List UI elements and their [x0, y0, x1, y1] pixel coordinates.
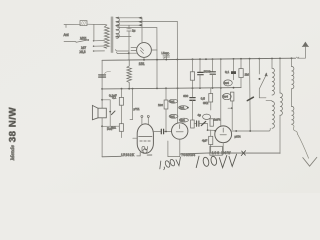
resistor R6	[191, 120, 195, 128]
wire column x192.5	[192, 59, 194, 72]
tuning coil L2 secondary	[116, 17, 119, 38]
node x110 cluster	[109, 111, 111, 113]
wire C top	[291, 58, 293, 66]
wire C9 right	[200, 124, 208, 131]
resistor R3 zigzag	[127, 60, 132, 88]
svg-text:1wt: 1wt	[158, 103, 163, 107]
wire column x157 mid	[156, 60, 158, 89]
svg-text:λ0,3: λ0,3	[80, 50, 86, 54]
wire R2 stub	[121, 131, 123, 137]
capacitor C14	[231, 71, 236, 74]
svg-text:1RIS2K: 1RIS2K	[121, 153, 135, 157]
svg-text:0w1: 0w1	[180, 106, 185, 110]
wire antenna lower lead	[64, 41, 76, 43]
heater box V4	[210, 146, 223, 155]
wire coil pin hook1	[115, 50, 128, 51]
bus main HT line	[102, 58, 296, 60]
svg-text:2wFt: 2wFt	[214, 117, 221, 121]
handwriting 100V right	[196, 154, 236, 167]
capacitor C1 grid	[127, 25, 131, 60]
capacitor C4 diagonal	[111, 111, 115, 115]
resistor R4	[164, 100, 168, 109]
node V4 left rim	[214, 130, 216, 132]
node 207.6	[207, 129, 209, 131]
transformer primary winding A1	[272, 68, 274, 95]
wire speaker bottom	[101, 118, 103, 157]
node row dots	[121, 87, 235, 90]
svg-text:0w1: 0w1	[170, 99, 175, 103]
switch S2 arm	[259, 74, 267, 89]
wire row y88.7	[102, 88, 241, 89]
wire to V4	[208, 129, 215, 131]
trimmer arrow C3	[105, 71, 111, 73]
svg-text:μ00t: μ00t	[235, 135, 241, 139]
wire tap1 to coil	[94, 40, 105, 42]
transformer winding C2	[292, 106, 294, 124]
svg-text:106 N3W: 106 N3W	[212, 151, 231, 155]
capacitor C13 diagonal	[201, 121, 205, 125]
wire line L4	[118, 27, 157, 29]
node bottom line	[223, 152, 225, 154]
wire column x219.5 feeds V4	[220, 59, 222, 126]
wire V1 pins from coil	[129, 48, 137, 54]
wire V4 right anode row	[232, 128, 271, 131]
wire C8 down	[192, 100, 194, 120]
tube V3 circle	[172, 123, 188, 139]
svg-text:151: 151	[139, 62, 145, 66]
oval capacitor C12	[203, 114, 211, 119]
electrode V3	[176, 125, 183, 132]
wire coil pin hook2	[116, 52, 128, 53]
wire V1 bottom	[143, 57, 145, 60]
wire column x162.5	[165, 88, 167, 100]
handwriting X	[241, 151, 245, 156]
wire column x233.5	[233, 59, 235, 71]
node left column y99.8	[101, 99, 103, 101]
electrode V2 grid dashes	[140, 140, 151, 142]
resistor R8	[231, 92, 234, 101]
node tap1	[93, 40, 95, 42]
wire V2 top pin1	[141, 117, 143, 124]
svg-text:Löspr: Löspr	[162, 51, 169, 55]
arrow mains up	[302, 42, 308, 47]
wire R7 down	[210, 102, 212, 110]
wire heater tap row	[266, 99, 272, 101]
handwriting 100V left	[159, 157, 182, 170]
node tap3	[93, 50, 95, 52]
wire R8 down	[231, 101, 233, 130]
wire R7 drop	[210, 88, 212, 94]
wire row y126.3	[102, 125, 119, 127]
svg-text:Mende: Mende	[10, 145, 16, 162]
switch S1 arm	[76, 40, 88, 42]
capacitor C5 coupling	[161, 129, 163, 134]
tube V4 circle	[215, 126, 232, 143]
wire fuse to coil	[87, 23, 105, 25]
heater loop V3	[168, 139, 180, 156]
node coil tap joint	[128, 52, 130, 54]
resistor R7	[209, 94, 213, 103]
oval capacitor C19	[169, 114, 178, 118]
node left column y88.8	[101, 88, 103, 90]
wire grid line L2 with arrow	[117, 20, 177, 22]
antenna coil L1 primary	[104, 25, 109, 48]
wire switch common drop	[93, 24, 95, 40]
capacitor C10	[198, 72, 204, 74]
wire V2 to C5	[153, 131, 161, 133]
capacitor C9 series	[197, 121, 199, 126]
wire V1 top cap	[141, 18, 143, 43]
node V4 right	[235, 130, 237, 132]
wire B bottom	[279, 115, 281, 153]
wire mains lead	[298, 134, 309, 158]
svg-text:4μ: 4μ	[198, 113, 202, 117]
wire bottom heater line	[102, 155, 121, 158]
wire grid line L3 with arrow	[117, 24, 142, 26]
tube V2 capsule	[137, 124, 153, 153]
svg-text:λ511: λ511	[80, 36, 87, 40]
wire R6 to coupling	[194, 123, 196, 125]
wire branch to x110	[102, 100, 110, 127]
svg-text:0,1μF: 0,1μF	[109, 94, 117, 98]
wire column x250	[249, 59, 252, 131]
svg-text:Ant: Ant	[64, 33, 69, 37]
wire B top	[279, 58, 281, 93]
wire V4 bottom	[222, 143, 224, 153]
svg-text:0w4: 0w4	[223, 95, 228, 99]
wire R9 down	[240, 78, 242, 88]
speaker LS	[98, 108, 106, 118]
tube V1 circle	[137, 43, 152, 58]
electrode V4	[220, 128, 226, 135]
svg-text:600: 600	[183, 94, 188, 98]
svg-text:0,1: 0,1	[225, 70, 230, 74]
wire S2 bottom step	[259, 89, 266, 98]
capacitor C8	[190, 98, 195, 101]
resistor R2	[119, 124, 123, 132]
capacitor C11	[210, 72, 215, 74]
trimmer capacitor C2	[163, 55, 170, 59]
resistor R1	[121, 89, 123, 98]
resistor R5	[190, 72, 194, 80]
wire mains lead curl	[292, 124, 298, 134]
svg-text:4μF: 4μF	[202, 139, 207, 143]
oval capacitor C16	[222, 94, 231, 100]
fuse F1	[80, 21, 87, 26]
svg-text:0K2: 0K2	[203, 101, 209, 105]
oval capacitor C6	[179, 106, 188, 110]
switch S2 contact	[259, 78, 261, 80]
wire V1 anode right	[151, 49, 157, 51]
wire column x241	[240, 59, 242, 69]
svg-text:5μ1: 5μ1	[111, 125, 116, 129]
electrode V2 anode line	[139, 135, 152, 137]
wire C10 down	[199, 75, 201, 88]
svg-text:2M: 2M	[245, 72, 250, 76]
wire A top	[271, 59, 273, 69]
wire R5 down	[192, 80, 194, 97]
transformer winding B	[280, 93, 282, 115]
svg-text:0w1: 0w1	[180, 118, 185, 122]
capacitor C3 on left column	[99, 75, 106, 77]
svg-text:0w4: 0w4	[224, 81, 229, 85]
resistor R9	[239, 69, 243, 78]
electrode V1	[141, 48, 144, 54]
wire corner drop x157	[156, 28, 158, 60]
wire C11 down	[212, 74, 214, 88]
arrow mains plug	[303, 157, 317, 166]
wire bus to mains arrow	[298, 46, 306, 58]
switch S2 mains	[258, 59, 260, 74]
wire R1 down	[121, 105, 123, 124]
oval capacitor C18	[169, 99, 178, 103]
node bus dots	[143, 57, 292, 60]
svg-text:1μ: 1μ	[132, 28, 136, 32]
wire column x132	[130, 89, 133, 120]
wire R4 down	[165, 109, 167, 131]
wire column x200	[199, 59, 201, 72]
capacitor C17 tilted	[247, 97, 253, 100]
wire C5 to V3	[164, 131, 171, 133]
wire C mid	[291, 89, 293, 107]
svg-text:μ*11: μ*11	[134, 107, 140, 111]
oval capacitor C15	[224, 80, 233, 86]
wire tap3 to coil	[94, 50, 105, 52]
wire left column x102	[101, 60, 103, 108]
resistor R10	[210, 130, 212, 136]
node x250 on anode wire	[249, 130, 251, 132]
transformer winding C1	[292, 66, 294, 88]
terminal V2 bottom circle	[143, 149, 147, 153]
wire coil top join	[105, 24, 107, 26]
transformer winding A2	[272, 101, 274, 128]
wire column x212.5	[212, 59, 214, 71]
node at 167	[165, 131, 167, 133]
wire C14 down	[233, 74, 235, 80]
wire corner drop x177	[176, 21, 178, 59]
electrode V2 heater	[142, 146, 147, 151]
node speaker bottom	[101, 125, 103, 127]
resistor R11	[210, 119, 213, 126]
wire column x177.5	[177, 60, 179, 123]
wire tap2 to coil	[94, 45, 105, 47]
wire top line L1 with arrow	[117, 17, 142, 19]
svg-text:38 N/W: 38 N/W	[8, 107, 19, 143]
node R8 joint	[231, 107, 233, 109]
wire V2 grid left	[133, 137, 138, 139]
wire line3 with arrow	[117, 35, 132, 37]
svg-text:70SN34: 70SN34	[181, 153, 195, 157]
wire V2 top pin2	[147, 117, 149, 124]
core T1	[111, 17, 113, 53]
node tap2	[93, 45, 95, 47]
svg-text:0w1: 0w1	[170, 114, 175, 118]
svg-text:0,5: 0,5	[201, 97, 206, 101]
oval capacitor C7	[179, 118, 188, 122]
wire antenna top lead	[64, 23, 80, 25]
